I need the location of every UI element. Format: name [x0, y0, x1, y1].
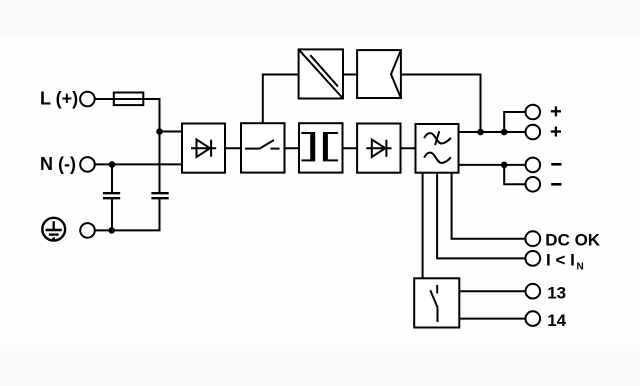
- terminal PE circle: [80, 223, 95, 238]
- wire output stage down to I < IN terminal: [437, 173, 533, 259]
- wire output stage to relay box: [422, 173, 424, 279]
- wire L vertical branch down to capacitor C2: [159, 99, 161, 193]
- wire from switch box top up to converter box A: [263, 75, 299, 124]
- terminal 13: [526, 284, 541, 299]
- wire capacitor C2 lower lead and PE bottom rail: [95, 198, 160, 230]
- rectifier box: [182, 124, 225, 173]
- fuse F1: [114, 93, 144, 106]
- terminal N circle: [80, 157, 95, 172]
- terminal 14: [526, 311, 541, 326]
- PE earth symbol: [42, 218, 65, 241]
- node L branch: [156, 128, 163, 135]
- fuse F1 element line: [114, 98, 144, 100]
- converter box A diagonals: [299, 49, 343, 98]
- svg-text:I < I: I < I: [546, 251, 575, 270]
- transformer core symbol: [301, 133, 338, 160]
- wire diode box to output stage box: [401, 147, 416, 149]
- svg-text:14: 14: [547, 311, 566, 330]
- wire box B right, corner down to + output node: [401, 75, 481, 133]
- relay box: [414, 278, 459, 327]
- wire relay contact to terminal 13: [459, 290, 533, 292]
- label + 2: [551, 127, 561, 137]
- converter box A (DC/DC): [299, 49, 343, 98]
- rectifier diode symbol: [191, 140, 216, 158]
- svg-text:13: 13: [547, 283, 566, 302]
- wire converter box A to box B: [343, 74, 357, 76]
- wire output stage down to DC OK terminal: [452, 173, 533, 239]
- svg-text:L (+): L (+): [40, 88, 78, 108]
- wire - branch down to second - terminal: [504, 165, 533, 184]
- wire capacitor C1 lower lead: [111, 198, 113, 230]
- wire switch box to transformer: [285, 147, 300, 149]
- node PE rail: [108, 227, 115, 234]
- terminal - 1: [526, 158, 541, 173]
- wire + branch up to first + terminal: [504, 112, 533, 132]
- terminal DC OK: [525, 231, 540, 246]
- svg-text:N: N: [577, 262, 584, 273]
- wire L from terminal to fuse to corner: [95, 98, 160, 100]
- node N / C1: [109, 161, 116, 168]
- node + rail / converter feedback: [477, 129, 484, 136]
- capacitor C2 plates: [151, 193, 168, 198]
- output diode symbol: [366, 140, 391, 158]
- switch symbol: [245, 140, 280, 149]
- terminal + 2: [526, 125, 541, 140]
- svg-text:DC OK: DC OK: [545, 230, 601, 249]
- wire relay contact to terminal 14: [459, 318, 533, 320]
- terminal I < IN: [525, 251, 540, 266]
- terminal - 2: [526, 177, 541, 192]
- label + 1: [551, 106, 561, 116]
- node - rail branch: [501, 162, 508, 169]
- wire from L-branch junction to rectifier top input: [160, 131, 183, 133]
- node + rail branch: [501, 129, 508, 136]
- terminal L circle: [80, 92, 95, 107]
- label - 2: [551, 183, 561, 186]
- switch box (inrush / PFC switch): [241, 123, 285, 172]
- label - 1: [551, 163, 561, 166]
- terminal + 1: [526, 105, 541, 120]
- crossed AC wave symbol: [424, 131, 451, 145]
- output stage box (regulation): [416, 124, 459, 173]
- svg-text:N (-): N (-): [40, 154, 76, 174]
- transformer box: [299, 123, 343, 172]
- output diode box: [357, 124, 400, 173]
- relay contact symbol: [430, 285, 437, 322]
- wire N from terminal to rectifier bottom input: [95, 163, 182, 165]
- capacitor C1 plates: [103, 193, 120, 198]
- wire rectifier output to switch box: [225, 147, 241, 149]
- wire transformer to output diode box: [343, 147, 358, 149]
- wire - output rail to terminal: [459, 164, 533, 166]
- wire + output rail to terminal: [459, 131, 533, 133]
- converter box B (chevron): [357, 50, 401, 98]
- wire capacitor C1 upper lead: [111, 164, 113, 193]
- AC wave symbol: [424, 153, 451, 163]
- converter box B chevron: [391, 50, 401, 98]
- junction dots: [108, 128, 507, 234]
